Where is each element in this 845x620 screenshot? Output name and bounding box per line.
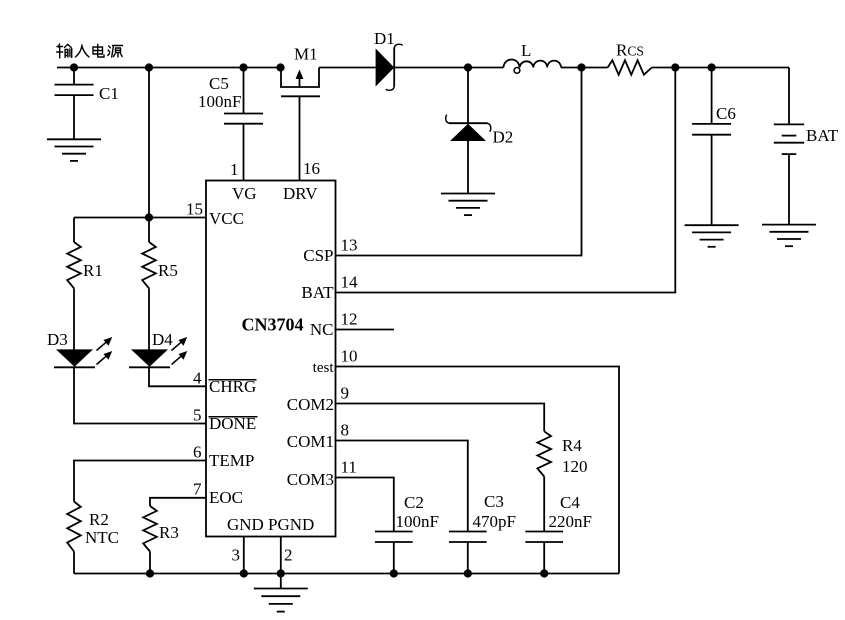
node C2 rail <box>390 569 398 577</box>
wire VCC branch vertical <box>148 68 150 218</box>
pin 8 label <box>341 421 350 440</box>
pin 10 label <box>341 347 358 366</box>
wire R1 to D3 <box>73 288 75 350</box>
resistor R1 <box>67 242 81 288</box>
pin BAT name <box>301 283 334 302</box>
wire input rail <box>57 67 281 69</box>
node C4 rail <box>540 569 548 577</box>
wire TEMP to R2 <box>74 461 206 502</box>
wire R2 bottom <box>73 552 75 574</box>
label C3 <box>484 492 504 511</box>
wire D1 to D2 node <box>394 67 503 69</box>
label D3 <box>47 330 68 349</box>
pin 14 label <box>341 273 359 292</box>
svg-text:BAT: BAT <box>806 126 839 145</box>
label CN3704 <box>242 315 304 335</box>
diode D4 arrows <box>172 337 188 365</box>
node C3 rail <box>464 569 472 577</box>
node C6 branch <box>707 63 715 71</box>
pin 7 label <box>193 480 202 499</box>
label R4 value 120 <box>562 457 588 476</box>
pin 15 label <box>186 200 203 219</box>
pin PGND name <box>268 515 314 534</box>
wire EOC to R3 <box>150 498 206 506</box>
wire C3 bottom <box>467 542 469 574</box>
pin VG name <box>232 184 257 203</box>
node VCC branch <box>145 63 153 71</box>
wire R5 to D4 <box>148 288 150 350</box>
pin test name <box>313 360 335 376</box>
pin 11 label <box>341 458 357 477</box>
node CSP sense <box>577 63 585 71</box>
wire D3 to DONE <box>74 367 206 423</box>
diode D1 cathode bar <box>393 47 395 86</box>
wire battery bottom <box>788 154 790 225</box>
svg-text:2: 2 <box>284 546 293 565</box>
pin EOC name <box>209 488 243 507</box>
svg-text:M1: M1 <box>294 45 318 64</box>
svg-text:470pF: 470pF <box>473 512 516 531</box>
svg-text:13: 13 <box>341 236 358 255</box>
inductor L <box>504 60 562 74</box>
wire BAT pin to rail <box>336 68 676 293</box>
svg-text:R5: R5 <box>158 261 178 280</box>
capacitor C4 <box>525 532 563 543</box>
label R1 <box>83 261 103 280</box>
svg-text:11: 11 <box>341 458 357 477</box>
wire R5 top <box>148 218 150 243</box>
resistor R3 <box>143 506 157 552</box>
transistor M1 arrow <box>296 70 304 88</box>
capacitor C1 <box>55 85 94 96</box>
wire D4 to CHRG <box>149 367 206 386</box>
resistor R5 <box>142 242 156 288</box>
diode D1 triangle <box>376 49 395 87</box>
transistor M1 gate bar <box>281 95 320 97</box>
svg-text:NC: NC <box>310 320 334 339</box>
svg-text:7: 7 <box>193 480 202 499</box>
pin 5 label <box>193 405 202 424</box>
svg-text:C4: C4 <box>560 493 580 512</box>
ground D2 <box>441 194 495 216</box>
diode D4 LED <box>129 349 170 367</box>
label C1 <box>99 84 119 103</box>
svg-text:L: L <box>521 41 531 60</box>
wire C5 top <box>243 68 245 114</box>
op-amp U1 CN3704 body <box>206 181 336 537</box>
ground battery <box>762 225 816 247</box>
capacitor C3 <box>449 532 487 543</box>
wire C5 to VG pin 1 <box>243 124 245 181</box>
svg-text:PGND: PGND <box>268 515 314 534</box>
diode D1 schottky hooks <box>386 44 403 90</box>
label R4 <box>562 436 582 455</box>
resistor Rcs <box>608 60 652 74</box>
label R3 <box>159 523 179 542</box>
svg-text:9: 9 <box>341 384 350 403</box>
label D2 <box>493 128 514 147</box>
svg-text:C6: C6 <box>716 104 736 123</box>
svg-text:D1: D1 <box>374 29 395 48</box>
svg-text:D3: D3 <box>47 330 68 349</box>
node M1 source <box>276 63 284 71</box>
label C6 <box>716 104 736 123</box>
label C2 value <box>396 512 439 531</box>
pin CHRG name <box>209 377 257 396</box>
svg-text:10: 10 <box>341 347 358 366</box>
svg-text:EOC: EOC <box>209 488 243 507</box>
svg-text:GND: GND <box>227 515 264 534</box>
label BAT <box>806 126 839 145</box>
label R2 <box>89 510 109 529</box>
wire GND pin 3 <box>243 537 245 574</box>
pin 2 label <box>284 546 293 565</box>
pin TEMP name <box>209 451 254 470</box>
pin COM1 name <box>287 432 334 451</box>
svg-text:COM2: COM2 <box>287 395 334 414</box>
wire C6 top <box>711 68 713 124</box>
wire Rcs to BAT rail <box>652 67 789 69</box>
pin 6 label <box>193 442 202 461</box>
diode D3 LED <box>54 349 95 367</box>
wire C4 bottom <box>543 542 545 574</box>
node input at C1 <box>70 63 78 71</box>
label M1 <box>294 45 318 64</box>
wire M1 drain to D1 <box>319 67 376 69</box>
ground PGND <box>254 589 308 612</box>
pin 13 label <box>341 236 358 255</box>
wire D2 bottom <box>467 141 469 194</box>
svg-text:VCC: VCC <box>209 209 244 228</box>
svg-text:TEMP: TEMP <box>209 451 254 470</box>
wire COM3 to C2 <box>336 478 394 532</box>
label C2 <box>404 493 424 512</box>
wire CSP to sense node <box>336 68 582 256</box>
diode D2 cathode bar <box>449 122 488 124</box>
capacitor C6 <box>692 124 731 135</box>
node C5 branch <box>239 63 247 71</box>
node GND rail <box>240 569 248 577</box>
wire R4 to C4 <box>543 477 545 532</box>
svg-text:BAT: BAT <box>301 283 334 302</box>
resistor R2 <box>67 502 81 552</box>
svg-text:5: 5 <box>193 405 202 424</box>
label C3 value <box>473 512 516 531</box>
wire test to ground rail <box>336 367 620 574</box>
svg-text:COM3: COM3 <box>287 470 334 489</box>
ground C6 <box>685 225 739 247</box>
svg-text:220nF: 220nF <box>549 512 592 531</box>
svg-text:14: 14 <box>341 273 359 292</box>
svg-text:15: 15 <box>186 200 203 219</box>
wire C1 bottom <box>73 95 75 139</box>
label C4 <box>560 493 580 512</box>
wire ground rail <box>74 573 619 575</box>
svg-text:R4: R4 <box>562 436 582 455</box>
label Rcs <box>616 41 644 60</box>
svg-text:NTC: NTC <box>85 528 119 547</box>
svg-text:120: 120 <box>562 457 588 476</box>
wire COM2 to R4 <box>336 404 545 432</box>
svg-text:DRV: DRV <box>283 184 318 203</box>
svg-text:C2: C2 <box>404 493 424 512</box>
pin 4 label <box>193 368 202 387</box>
wire COM1 to C3 <box>336 441 468 532</box>
node R3 ground <box>146 569 154 577</box>
svg-text:test: test <box>313 360 335 376</box>
pin 16 label <box>303 159 320 178</box>
capacitor C2 <box>375 532 413 543</box>
diode D3 arrows <box>97 337 113 365</box>
svg-text:6: 6 <box>193 442 202 461</box>
wire C1 top <box>73 68 75 85</box>
label NTC <box>85 528 119 547</box>
pin DRV name <box>283 184 318 203</box>
svg-text:100nF: 100nF <box>396 512 439 531</box>
pin COM2 name <box>287 395 334 414</box>
capacitor C5 <box>224 114 263 124</box>
wire C6 bottom <box>711 135 713 226</box>
wire R1 top <box>73 218 75 243</box>
label C5 value 100nF <box>198 92 241 111</box>
wire NC stub <box>336 329 395 331</box>
label D1 <box>374 29 395 48</box>
svg-text:D2: D2 <box>493 128 514 147</box>
diode D2 schottky hooks <box>446 115 491 132</box>
wire PGND pin 2 <box>280 537 282 589</box>
svg-text:VG: VG <box>232 184 257 203</box>
label C5 <box>209 74 229 93</box>
wire L to node <box>561 67 608 69</box>
label L <box>521 41 531 60</box>
svg-text:C5: C5 <box>209 74 229 93</box>
svg-text:4: 4 <box>193 368 202 387</box>
pin COM3 name <box>287 470 334 489</box>
svg-text:RCS: RCS <box>616 41 644 60</box>
wire R3 bottom <box>149 552 151 574</box>
wire VCC pin line <box>74 217 206 219</box>
svg-text:C1: C1 <box>99 84 119 103</box>
svg-text:12: 12 <box>341 310 358 329</box>
pin 3 label <box>232 546 241 565</box>
label input power 输入电源 <box>57 44 123 58</box>
svg-text:3: 3 <box>232 546 241 565</box>
svg-text:CN3704: CN3704 <box>242 315 304 335</box>
label C4 value <box>549 512 592 531</box>
pin 9 label <box>341 384 350 403</box>
wire M1 gate to DRV pin 16 <box>299 96 301 180</box>
node PGND rail <box>277 569 285 577</box>
node VCC R5 junction <box>145 213 153 221</box>
transistor M1 source loop <box>281 68 319 88</box>
svg-text:CSP: CSP <box>303 246 333 265</box>
pin DONE name <box>209 414 258 433</box>
wire battery top <box>788 68 790 125</box>
node BAT feedback <box>671 63 679 71</box>
wire D2 top <box>467 68 469 124</box>
resistor R4 <box>537 431 551 476</box>
svg-text:8: 8 <box>341 421 350 440</box>
svg-text:1: 1 <box>230 160 239 179</box>
pin 1 label <box>230 160 239 179</box>
svg-text:R1: R1 <box>83 261 103 280</box>
pin GND name <box>227 515 264 534</box>
battery BAT <box>774 124 804 154</box>
svg-text:R3: R3 <box>159 523 179 542</box>
wire C2 bottom <box>393 542 395 574</box>
diode D2 triangle <box>450 124 486 141</box>
node D2 branch <box>464 63 472 71</box>
label R5 <box>158 261 178 280</box>
pin CSP name <box>303 246 333 265</box>
ground C1 <box>47 139 101 161</box>
svg-text:R2: R2 <box>89 510 109 529</box>
label D4 <box>152 330 173 349</box>
svg-text:100nF: 100nF <box>198 92 241 111</box>
svg-text:COM1: COM1 <box>287 432 334 451</box>
pin VCC name <box>209 209 244 228</box>
svg-text:C3: C3 <box>484 492 504 511</box>
svg-text:D4: D4 <box>152 330 173 349</box>
svg-text:16: 16 <box>303 159 320 178</box>
pin 12 label <box>341 310 358 329</box>
pin NC name <box>310 320 334 339</box>
